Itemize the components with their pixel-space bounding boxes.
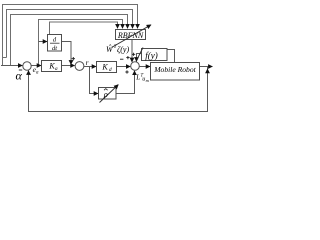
wire bridge between L1 and L2 risers: [3, 57, 7, 59]
sum junction S1: [23, 62, 31, 70]
wire rho output right and up into sum S3 bottom: [116, 71, 135, 94]
sign plus at S3 top2: [132, 53, 135, 56]
svg-text:Mobile Robot: Mobile Robot: [153, 65, 196, 74]
wire bus L4 (error tap up into RBFNN input 2): [39, 20, 123, 66]
sign plus at S3 top1: [126, 56, 129, 59]
svg-text:ζ(y): ζ(y): [117, 45, 129, 54]
wire bus L3 (top loop 3 into RBFNN input 3): [11, 15, 128, 66]
wire bus L5 (d/dt top output into RBFNN input 1): [50, 22, 118, 34]
svg-text:K: K: [101, 63, 108, 72]
wire error e from S1 to Ka: [31, 65, 41, 67]
adaptation arrow through RBFNN: [112, 25, 152, 48]
wire alpha reference input into sum S1: [1, 65, 22, 67]
wire Ka output to sum S2: [62, 65, 75, 67]
adaptation arrow through rho-hat: [100, 85, 119, 103]
wire bus L2 (top loop 2 into RBFNN input 4): [7, 10, 133, 58]
block d/dt: [48, 35, 62, 52]
block f(y): [142, 49, 168, 61]
wire robot output with arrow: [200, 66, 213, 68]
svg-text:α: α: [16, 69, 23, 83]
wire feedback down right side along bottom and up into S1: [29, 67, 208, 112]
sign plus at d/dt join: [72, 57, 75, 60]
block RBFNN: [116, 30, 146, 40]
svg-text:a: a: [36, 70, 39, 75]
wire Kd output to sum S3: [117, 66, 131, 68]
sign plus at S3 bottom: [125, 70, 128, 73]
svg-text:RBFNN: RBFNN: [117, 31, 144, 40]
sign minus at S3 left: [120, 58, 123, 60]
sign minus at S1: [19, 69, 22, 71]
wire RBFNN output down into sum S3: [131, 40, 133, 63]
svg-text:f(y): f(y): [145, 51, 158, 61]
wire r branch down into rho block: [90, 67, 99, 94]
radical stroke at f(y) box left edge: [138, 48, 144, 59]
wire branch from error riser into d/dt: [39, 41, 48, 43]
label d/dt fraction bar: [50, 42, 60, 44]
svg-text:m: m: [146, 78, 149, 83]
svg-text:dt: dt: [52, 45, 57, 52]
block rho-hat: [99, 88, 117, 100]
svg-text:ρ: ρ: [103, 89, 108, 99]
wire r from S2 to Kd: [84, 66, 96, 68]
wire d/dt right output down joining Ka output: [62, 42, 72, 65]
arrowhead feedback tap pointing up at robot output junction: [205, 68, 210, 73]
wire robot top tap to f(y) right side: [167, 50, 175, 63]
svg-text:r: r: [86, 58, 89, 67]
svg-text:d: d: [109, 67, 112, 73]
sum junction S2: [75, 62, 84, 71]
wire bus L1 (top loop 1 into RBFNN input 5): [3, 5, 138, 66]
block Ka: [42, 61, 62, 72]
sum junction S3: [131, 62, 140, 71]
block Mobile Robot: [151, 63, 200, 81]
block Kd: [97, 62, 117, 73]
svg-text:a: a: [55, 66, 58, 72]
wire f(y) output down into sum S3: [137, 54, 142, 62]
wire S3 output into Mobile Robot: [139, 66, 150, 68]
